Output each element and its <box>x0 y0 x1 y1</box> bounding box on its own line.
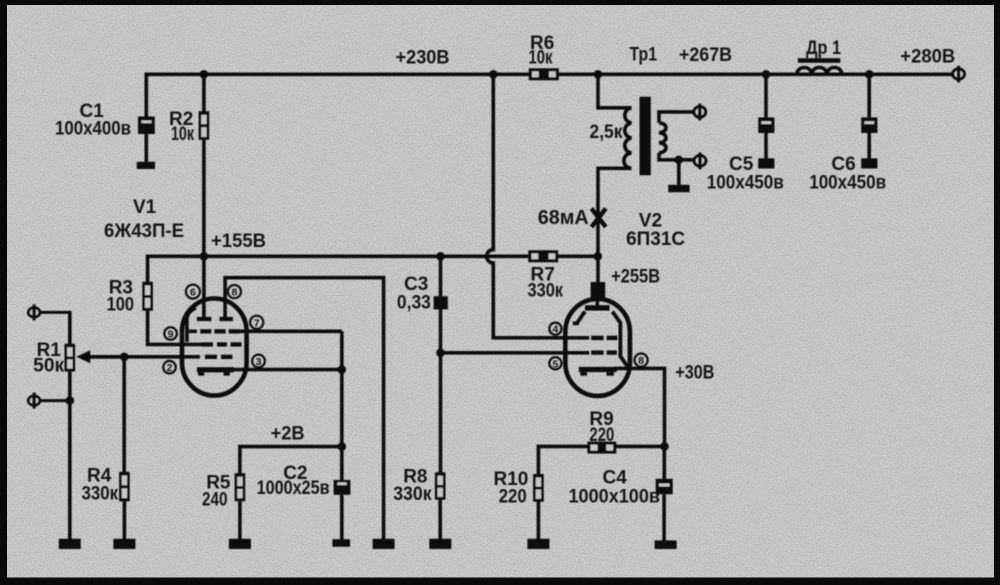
wire C3 stem <box>439 256 443 296</box>
svg-text:3: 3 <box>256 356 262 368</box>
capacitor C5 <box>758 117 774 133</box>
ground C1 <box>137 162 155 169</box>
wire +155V node to R3 <box>148 255 204 283</box>
svg-text:50к: 50к <box>33 356 64 377</box>
svg-text:1000х25в: 1000х25в <box>257 478 330 499</box>
pin 6 label V1 <box>186 285 200 299</box>
V1 cathode <box>197 367 234 372</box>
wire C4 stem <box>662 446 666 479</box>
ground transformer secondary <box>668 185 689 192</box>
svg-text:+280В: +280В <box>900 47 955 68</box>
node C3 top junction <box>436 252 445 261</box>
svg-text:100х450в: 100х450в <box>707 173 784 194</box>
wire R1 top stem <box>68 311 72 344</box>
wire V1 pin6 anode lead <box>202 256 206 317</box>
svg-text:68мА: 68мА <box>538 206 589 229</box>
pin 9 label V1 <box>164 327 177 340</box>
svg-text:Др 1: Др 1 <box>806 38 841 59</box>
ground R10 <box>527 539 549 549</box>
pin 8 label V2 <box>635 354 648 368</box>
node V2 anode junction <box>594 252 603 261</box>
node C6 junction <box>865 70 874 79</box>
svg-text:10к: 10к <box>171 124 194 145</box>
wire R4 stem <box>122 357 126 472</box>
wire R4 bottom <box>123 501 127 539</box>
choke Dr1 winding <box>797 67 842 74</box>
svg-text:+30В: +30В <box>675 363 714 384</box>
node secondary ground junction <box>675 156 684 165</box>
wire R8 bottom <box>438 500 442 540</box>
node screen feed top junction <box>489 70 498 79</box>
tube V2 envelope <box>565 299 630 396</box>
ground R8 <box>429 539 451 549</box>
choke Dr1 core <box>798 58 840 63</box>
wire R3 bottom to V1 pin9 row <box>148 311 202 345</box>
node V2 grid junction <box>436 349 445 358</box>
capacitor C1 <box>138 117 155 135</box>
svg-text:9: 9 <box>168 329 174 341</box>
wire C2 stem <box>340 447 344 481</box>
ground C4 <box>655 540 677 549</box>
svg-text:5: 5 <box>552 358 558 370</box>
svg-text:6П31С: 6П31С <box>626 229 685 250</box>
wire secondary top lead <box>659 112 693 123</box>
wire C4 lower stem <box>662 494 666 541</box>
input terminal upper <box>28 308 40 318</box>
wire C2 lower stem <box>340 495 344 540</box>
wire input upper to R1 <box>40 311 72 314</box>
transformer Tr1 primary winding 2,5k <box>624 108 632 169</box>
terminal output bottom <box>694 155 706 166</box>
ground V1 pin8 <box>373 539 395 549</box>
pin 4 label V2 <box>549 323 561 336</box>
resistor R2 <box>199 111 210 140</box>
svg-text:+230В: +230В <box>396 48 450 69</box>
svg-text:7: 7 <box>254 317 260 329</box>
transformer Tr1 core <box>640 97 651 176</box>
resistor R10 <box>533 474 544 502</box>
wire V1 pin7 drop <box>340 331 344 369</box>
wire R8 stem <box>439 353 443 473</box>
terminal output +280V <box>953 69 965 79</box>
R1 wiper arrow <box>76 350 90 363</box>
ground C5 <box>758 158 774 168</box>
wire V1 pin2 row from R1 wiper <box>90 355 200 359</box>
svg-text:+155В: +155В <box>211 231 266 252</box>
resistor R4 <box>119 472 130 502</box>
svg-text:4: 4 <box>552 324 558 336</box>
wire secondary ground stem <box>677 160 681 185</box>
V2 anode lead <box>595 296 599 306</box>
wire screen feed with hop over R7 row <box>487 74 590 338</box>
capacitor C6 <box>861 117 877 133</box>
potentiometer R1 <box>65 344 76 372</box>
wire R10 bottom <box>537 502 541 540</box>
ground R4 <box>113 539 135 549</box>
wire C1 stem upper <box>145 73 149 118</box>
pin 3 label V1 <box>252 355 265 368</box>
svg-text:2,5к: 2,5к <box>590 122 623 143</box>
capacitor C2 <box>334 480 351 495</box>
svg-text:6: 6 <box>190 287 196 299</box>
resistor R8 <box>435 472 446 499</box>
wire V1 pin8 to ground <box>225 278 384 540</box>
pin 2 label V1 <box>163 361 176 374</box>
V2 anode top cap <box>591 282 606 298</box>
wire top +230V rail <box>146 73 953 77</box>
wire R2 stem bottom <box>202 140 206 256</box>
node pin7/pin3 junction <box>338 365 347 374</box>
wire C1 lower stem <box>145 134 149 162</box>
V1 pin8 bar <box>220 317 233 321</box>
svg-text:100: 100 <box>107 295 135 316</box>
wire V1 pin3 cathode row <box>234 368 342 372</box>
svg-text:+267В: +267В <box>679 45 732 66</box>
svg-text:330к: 330к <box>528 281 564 302</box>
wire transformer primary bottom lead <box>598 168 632 282</box>
resistor R5 <box>235 473 246 501</box>
svg-text:220: 220 <box>589 425 614 446</box>
wire V2 pin8 row to +30V <box>614 368 665 446</box>
svg-text:240: 240 <box>202 489 228 510</box>
V1 anode bar pin6 <box>197 317 212 321</box>
svg-text:10к: 10к <box>529 47 553 68</box>
V2 beam plate right <box>612 312 627 367</box>
node R2 top junction <box>200 70 209 79</box>
node transformer drop junction <box>594 70 603 79</box>
pin 7 label V1 <box>250 316 263 330</box>
ground R1 <box>59 539 81 549</box>
resistor R9 <box>587 442 616 454</box>
svg-text:8: 8 <box>231 287 237 299</box>
node C5 junction <box>762 70 771 79</box>
svg-text:Тр1: Тр1 <box>630 45 658 66</box>
svg-text:+255В: +255В <box>611 266 660 287</box>
svg-text:6Ж43П-Е: 6Ж43П-Е <box>104 221 184 242</box>
ground C2 <box>332 539 350 547</box>
V2 grid row2 pin5 dashes <box>591 350 603 354</box>
wire C6 lower stem <box>867 133 871 159</box>
V1 grid row2 pin9 dashes <box>202 342 214 346</box>
wire +155V row to V2 anode node <box>204 254 598 258</box>
wire secondary bottom lead <box>659 153 694 160</box>
pin 5 label V2 <box>549 357 561 370</box>
capacitor C3 <box>434 296 448 309</box>
wire C5 stem <box>764 74 768 118</box>
wire V2 pin5 grid row <box>441 351 590 355</box>
V2 anode bar <box>585 305 610 310</box>
wire input lower to R1 stem <box>40 399 72 402</box>
measurement mark X 68mA <box>592 209 606 228</box>
resistor R6 <box>529 68 559 80</box>
svg-text:8: 8 <box>638 355 644 367</box>
V1 heater curve <box>187 308 196 342</box>
resistor R3 <box>142 282 153 311</box>
node +2V junction <box>338 442 347 451</box>
wire R5 bottom <box>238 501 242 539</box>
svg-text:V1: V1 <box>133 197 157 218</box>
wire R2 stem top <box>202 74 206 111</box>
wire transformer primary top lead <box>598 74 632 108</box>
ground C6 <box>861 158 877 168</box>
node +155V junction <box>200 252 209 261</box>
svg-text:330к: 330к <box>82 484 119 505</box>
svg-text:220: 220 <box>499 486 527 507</box>
wire C5 lower stem <box>764 133 768 159</box>
svg-text:1000х100в: 1000х100в <box>569 486 661 507</box>
wire cathode to C2 node <box>340 370 344 447</box>
wire C6 stem <box>867 74 871 118</box>
svg-text:0,33: 0,33 <box>397 292 431 313</box>
V2 grid row1 pin4 dashes <box>591 336 603 340</box>
terminal output top <box>694 107 706 118</box>
V2 beam plate left <box>573 312 585 324</box>
ground R5 <box>229 539 251 549</box>
node R9/C4 junction <box>660 442 669 451</box>
svg-text:100х450в: 100х450в <box>809 173 886 194</box>
node input lower junction <box>66 396 75 405</box>
node wiper/R4 junction <box>120 353 129 362</box>
wire C3 to grid node <box>439 309 443 353</box>
wire R1 bottom stem <box>68 371 72 539</box>
svg-text:330к: 330к <box>393 484 432 505</box>
svg-text:2: 2 <box>167 362 173 374</box>
wire +2V row to R5 <box>240 445 342 474</box>
transformer Tr1 secondary winding <box>659 123 666 153</box>
resistor R7 <box>528 250 558 262</box>
svg-text:100х400в: 100х400в <box>55 119 131 140</box>
svg-text:+2В: +2В <box>271 424 305 445</box>
tube V1 envelope <box>182 299 247 396</box>
V2 cathode <box>579 367 617 372</box>
V1 grid row3 pin2 dashes <box>205 355 217 359</box>
capacitor C4 <box>656 479 673 494</box>
V1 grid row1 pin7 <box>189 329 342 333</box>
pin 8 label V1 <box>228 285 241 299</box>
wire R9 row <box>538 445 664 475</box>
input terminal lower <box>28 396 40 406</box>
